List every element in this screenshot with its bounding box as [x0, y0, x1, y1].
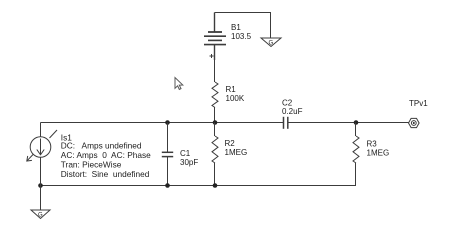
resistor R1 — [212, 82, 218, 108]
wire main rail left — [41, 122, 284, 124]
label R3 value — [367, 140, 390, 158]
svg-text:103.5: 103.5 — [231, 32, 252, 41]
svg-text:0.2uF: 0.2uF — [282, 107, 303, 116]
wire main rail right — [288, 122, 409, 124]
svg-text:B1: B1 — [231, 23, 241, 32]
wire battery to R1 — [214, 60, 216, 82]
label B1 value — [231, 23, 252, 41]
ground (bottom left) — [31, 210, 50, 219]
wire battery top to ground — [215, 13, 271, 39]
label C1 value — [180, 149, 198, 167]
node junction dot R2 bottom — [213, 183, 218, 188]
ground (top right) — [261, 38, 281, 47]
capacitor C2 — [284, 117, 288, 129]
svg-text:G: G — [269, 41, 274, 47]
capacitor C1 — [162, 123, 173, 186]
resistor R3 — [353, 123, 359, 186]
wire R1 to node — [214, 108, 216, 123]
node junction dot C1 bottom — [165, 183, 170, 188]
label R1 value — [226, 85, 245, 103]
mouse cursor — [175, 78, 183, 90]
wire bottom rail — [41, 185, 357, 187]
svg-text:R2: R2 — [225, 139, 236, 148]
svg-text:G: G — [38, 213, 43, 219]
label Is1 — [61, 132, 72, 142]
label Is1 attributes — [61, 141, 151, 179]
svg-text:1MEG: 1MEG — [367, 149, 390, 158]
battery B1 — [204, 13, 226, 61]
svg-text:TPv1: TPv1 — [409, 99, 428, 108]
svg-text:30pF: 30pF — [180, 158, 198, 167]
resistor R2 — [212, 123, 218, 186]
svg-text:100K: 100K — [226, 94, 245, 103]
node junction dot center — [213, 120, 218, 125]
current source Is1 — [27, 123, 57, 186]
svg-text:R1: R1 — [226, 85, 237, 94]
label TPv1 — [409, 99, 428, 108]
svg-text:C1: C1 — [180, 149, 191, 158]
node junction dot R3 top — [354, 120, 359, 125]
svg-text:R3: R3 — [367, 140, 378, 149]
node junction dot bottom left — [38, 183, 43, 188]
test point TPv1 — [409, 118, 420, 127]
svg-text:1MEG: 1MEG — [225, 148, 248, 157]
label C2 value — [282, 99, 303, 117]
node junction dot C1 top — [165, 120, 170, 125]
svg-text:Distort: Sine undefined: Distort: Sine undefined — [61, 169, 150, 179]
wire Is1 to ground — [40, 186, 42, 211]
label R2 value — [225, 139, 248, 157]
